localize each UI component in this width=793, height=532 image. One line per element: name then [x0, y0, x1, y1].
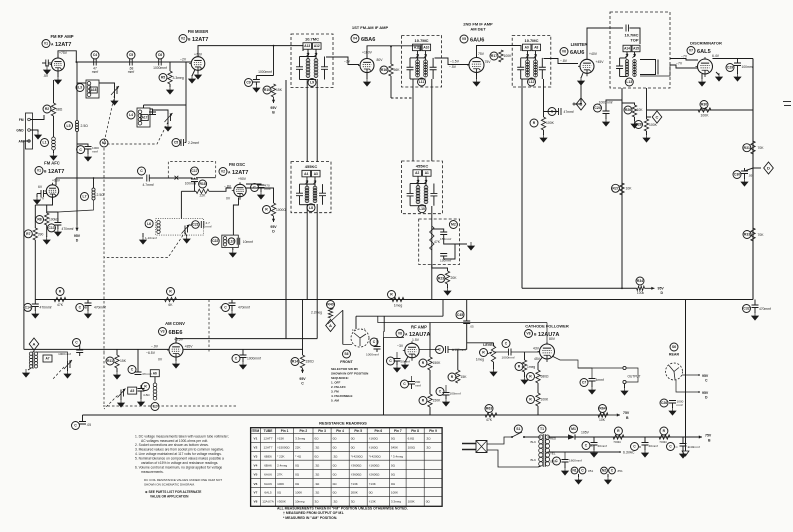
svg-text:27K: 27K — [277, 473, 282, 477]
svg-text:† MEASURED FROM OUTPUT OF: † MEASURED FROM OUTPUT OF M1. — [283, 511, 344, 515]
svg-text:47K: 47K — [434, 240, 441, 244]
V3 cathode ground — [175, 357, 177, 361]
bottom bus wire — [83, 414, 609, 416]
tuning capacitors of L11 — [407, 67, 414, 70]
svg-text:C32: C32 — [743, 307, 749, 311]
svg-text:10.7MC: 10.7MC — [305, 37, 319, 42]
svg-text:TOP: TOP — [630, 38, 638, 43]
capacitor .05 on right rail — [733, 171, 741, 179]
svg-text:2. Socket connections are sho: 2. Socket connections are shown as botto… — [135, 443, 209, 447]
svg-text:A8: A8 — [534, 46, 538, 50]
svg-text:545K: 545K — [391, 446, 398, 450]
diamond tag C — [647, 116, 652, 118]
svg-text:2.4meg: 2.4meg — [277, 463, 287, 467]
svg-text:.3Ω: .3Ω — [426, 446, 432, 450]
capacitor 470mmf right rail bottom — [743, 305, 751, 313]
svg-text:0Ω: 0Ω — [426, 500, 431, 504]
diamond tag A near RF amp — [326, 320, 336, 332]
capacitor 1000mmf am antenna — [73, 339, 81, 347]
svg-text:56K: 56K — [394, 68, 401, 72]
resistor 10K to ground — [624, 106, 632, 114]
svg-text:⊕40mmf: ⊕40mmf — [688, 445, 700, 449]
V4 cathode ground — [366, 73, 368, 80]
wire IF3 verticals down — [521, 79, 523, 288]
svg-text:A1: A1 — [425, 171, 429, 175]
svg-text:R: R — [422, 399, 425, 403]
svg-text:L11: L11 — [419, 80, 425, 84]
svg-text:R: R — [265, 208, 268, 212]
wire RF amp left loop — [383, 338, 385, 416]
svg-text:.5V: .5V — [43, 74, 49, 78]
svg-text:100K: 100K — [277, 482, 284, 486]
svg-text:−.9V: −.9V — [151, 345, 159, 349]
svg-text:C: C — [131, 368, 134, 372]
svg-text:D: D — [661, 291, 664, 295]
svg-text:3. Measured values are from s: 3. Measured values are from socket pin t… — [135, 448, 224, 452]
svg-text:C: C — [79, 148, 82, 152]
svg-text:* MEASURED IN "AM" POSITIO: * MEASURED IN "AM" POSITION. — [283, 516, 337, 520]
svg-text:V8: V8 — [254, 500, 258, 504]
wire 22K to osc grid — [209, 188, 232, 191]
filter capacitor C 40mmf — [667, 443, 675, 451]
triode V1 FM RF amp — [52, 58, 65, 71]
wire IF2 verticals down to 455KC box 2 — [412, 79, 414, 161]
svg-text:15K: 15K — [120, 359, 127, 363]
svg-text:.3Ω: .3Ω — [315, 473, 321, 477]
coil ref L11 — [418, 78, 426, 86]
svg-text:0Ω: 0Ω — [333, 437, 338, 441]
capacitor .05 bottom left — [72, 422, 80, 430]
svg-text:68Ω: 68Ω — [56, 108, 63, 112]
svg-text:+40V: +40V — [589, 52, 598, 56]
capacitor am osc tank — [138, 389, 145, 392]
svg-text:+90V: +90V — [238, 177, 247, 181]
svg-text:AC voltages measured at 1000-o: AC voltages measured at 1000-ohms per vo… — [141, 439, 208, 443]
svg-text:95V: 95V — [658, 287, 665, 291]
svg-text:AM DET: AM DET — [470, 27, 486, 32]
svg-text:M1: M1 — [571, 427, 576, 431]
svg-text:11: 11 — [352, 328, 355, 332]
svg-text:0Ω: 0Ω — [351, 446, 356, 450]
wire bus riser to RF amp loop — [442, 300, 444, 317]
resistor R2 68 ohm — [43, 105, 51, 113]
svg-text:150K: 150K — [433, 399, 442, 403]
svg-text:Pin 6: Pin 6 — [374, 429, 382, 433]
main horizontal bus wire — [35, 299, 753, 301]
capacitor 100mmf lower — [436, 388, 444, 396]
capacitor C6 1000mmf — [156, 51, 164, 59]
osc grid cluster box — [211, 237, 219, 245]
svg-text:ITEM: ITEM — [252, 429, 260, 433]
resistor 100K below diamond — [635, 121, 643, 129]
svg-text:A4: A4 — [304, 172, 308, 176]
svg-text:A11: A11 — [414, 46, 420, 50]
svg-text:BLK: BLK — [531, 440, 537, 444]
V6 cathode ground — [581, 73, 583, 78]
wire 455KC box1 verticals to bus — [306, 204, 308, 300]
svg-text:V1: V1 — [254, 437, 258, 441]
svg-text:6K: 6K — [168, 303, 173, 307]
svg-text:100mmf: 100mmf — [450, 392, 461, 396]
svg-text:LIMITER: LIMITER — [571, 42, 588, 47]
capacitor 100mmf AFC — [191, 167, 199, 175]
svg-text:R: R — [663, 429, 666, 433]
svg-text:2.2meg: 2.2meg — [311, 311, 322, 315]
cross mark on AFC line — [175, 176, 179, 180]
wire coupling to level pot — [467, 342, 494, 344]
pentode V5 6AU6 — [469, 58, 484, 73]
svg-text:*†4200Ω: *†4200Ω — [369, 455, 382, 459]
svg-text:2.5Ω: 2.5Ω — [81, 124, 89, 128]
trimmer boxes A2 A1 — [413, 170, 422, 177]
wire FM antenna to R2 — [30, 115, 44, 120]
svg-text:0Ω: 0Ω — [295, 463, 300, 467]
svg-text:0Ω: 0Ω — [351, 437, 356, 441]
svg-text:100Ω: 100Ω — [408, 446, 416, 450]
capacitor 20mmf at switch — [387, 357, 395, 365]
pentode V6 limiter — [580, 59, 594, 73]
svg-text:R28: R28 — [635, 123, 641, 127]
diamond tag B — [580, 84, 582, 104]
svg-text:DISCRIMINATOR: DISCRIMINATOR — [690, 41, 722, 46]
resistor R64 10K in bottom bus — [599, 405, 607, 413]
svg-text:0Ω: 0Ω — [369, 491, 374, 495]
svg-text:10K: 10K — [637, 108, 644, 112]
svg-text:470mmf: 470mmf — [759, 307, 771, 311]
svg-text:−1.5V: −1.5V — [450, 60, 460, 64]
IF transformer L8 box 455KC — [291, 162, 331, 213]
svg-text:700Ω: 700Ω — [613, 440, 621, 444]
resistor 6K in bus — [167, 288, 175, 296]
svg-text:680Ω: 680Ω — [541, 375, 550, 379]
osc tank box — [156, 219, 204, 236]
svg-text:V6: V6 — [254, 482, 258, 486]
svg-text:C: C — [581, 469, 584, 473]
svg-text:R: R — [518, 365, 521, 369]
svg-text:⊕100mmf: ⊕100mmf — [452, 348, 467, 352]
heater line 6.3VAC — [548, 451, 621, 453]
scan artifact marks right edge — [783, 102, 791, 106]
svg-text:0Ω: 0Ω — [391, 463, 396, 467]
svg-text:4.8Ω: 4.8Ω — [143, 393, 150, 397]
svg-text:V4: V4 — [353, 37, 357, 41]
capacitor 1000mmf at switch — [370, 338, 378, 346]
svg-text:FRONT: FRONT — [340, 360, 353, 364]
svg-text:†15000Ω: †15000Ω — [277, 446, 290, 450]
svg-text:A2: A2 — [415, 171, 419, 175]
svg-text:Pin 3: Pin 3 — [318, 429, 326, 433]
svg-text:75V: 75V — [623, 411, 630, 415]
wire V1 grid line to mixer — [77, 61, 191, 63]
coil ref L12 — [528, 78, 536, 86]
V1 cathode ground — [57, 71, 59, 77]
rectifier diode M1 — [570, 425, 578, 433]
coil ref L9 — [308, 79, 316, 87]
power transformer T1 — [538, 425, 546, 433]
svg-text:L13: L13 — [626, 80, 632, 84]
dual diode V7 6AL5 — [698, 59, 713, 74]
coils of L10 — [416, 186, 420, 190]
IF transformer L9 box 10.7MC — [291, 34, 333, 88]
svg-text:1. DC voltage measurements ta: 1. DC voltage measurements taken with va… — [135, 434, 229, 438]
IF4 trimmer boxes A14 A15 — [623, 45, 631, 52]
wire row3 grid bus — [24, 348, 169, 350]
svg-text:C: C — [705, 379, 708, 383]
svg-text:5. AM: 5. AM — [331, 399, 339, 403]
grid resistor 1meg — [515, 363, 523, 371]
filter resistor 700 ohm — [614, 427, 622, 435]
svg-text:12AT7: 12AT7 — [48, 169, 64, 175]
wire V4 plate to IF2 — [367, 46, 420, 59]
ground am antenna — [28, 368, 31, 370]
svg-text:R: R — [422, 361, 425, 365]
IF transformer L12 box 10.7MC — [512, 35, 551, 87]
svg-text:20K: 20K — [451, 276, 458, 280]
svg-text:S6: S6 — [672, 345, 676, 349]
wire IF3 secondary to limiter grid — [544, 59, 579, 64]
wire AFC line — [56, 177, 143, 179]
svg-text:N1: N1 — [572, 469, 576, 473]
svg-text:SHOWN ON SCHEMATIC DIAGRAM.: SHOWN ON SCHEMATIC DIAGRAM. — [144, 483, 195, 487]
wire V8B plate feed line — [378, 316, 547, 322]
svg-text:C7: C7 — [582, 381, 586, 385]
svg-text:0Ω: 0Ω — [295, 482, 300, 486]
osc gang dashed line — [104, 232, 186, 258]
svg-text:−7V: −7V — [681, 55, 688, 59]
resistor 2.2meg drop with diamond A — [327, 301, 335, 309]
svg-text:V5: V5 — [254, 473, 258, 477]
svg-text:A17: A17 — [142, 116, 148, 120]
wire L7 branch — [93, 178, 95, 188]
svg-text:10.7MC: 10.7MC — [524, 38, 538, 43]
svg-text:R10: R10 — [264, 88, 270, 92]
svg-text:A12: A12 — [314, 44, 320, 48]
svg-text:C: C — [633, 445, 636, 449]
capacitor C14 470mmf bus far left — [24, 303, 32, 311]
wire R7 column to bus — [34, 240, 36, 300]
svg-text:100K: 100K — [295, 491, 302, 495]
svg-text:.3Ω: .3Ω — [333, 500, 339, 504]
resistor R7 390 ohm — [24, 230, 32, 238]
svg-text:C: C — [75, 341, 78, 345]
svg-text:V1: V1 — [44, 42, 48, 46]
resistor 70K upper on right rail — [743, 144, 751, 152]
tuning capacitors of L12 — [517, 67, 524, 70]
svg-text:B: B — [626, 416, 629, 420]
triode V8A RF amp — [405, 343, 419, 357]
coil L7 2.5 ohm — [81, 193, 89, 201]
capacitor C4 47mmf — [91, 51, 99, 59]
svg-text:6V: 6V — [38, 185, 43, 189]
svg-text:R: R — [169, 290, 172, 294]
wire 95V D feed lower right — [522, 287, 637, 289]
svg-text:1meg: 1meg — [394, 304, 403, 308]
resistor 10K inline in B+ vertical — [612, 184, 620, 192]
ground osc grid cluster — [232, 248, 234, 251]
svg-text:95V: 95V — [270, 225, 277, 229]
diamond tag A far left — [29, 338, 39, 350]
75V B arrow bottom bus — [608, 414, 620, 416]
coils of L8 — [305, 186, 309, 190]
svg-text:†13K: †13K — [351, 482, 358, 486]
capacitor 4.7mmf AFC — [138, 167, 146, 175]
svg-text:47mmf: 47mmf — [564, 110, 574, 114]
svg-text:R11: R11 — [107, 359, 113, 363]
svg-text:C26: C26 — [661, 401, 667, 405]
output coupling capacitor 4mmf — [580, 379, 588, 387]
svg-text:2.5Ω: 2.5Ω — [97, 193, 105, 197]
V1 grid capacitor — [46, 60, 49, 67]
trimmer box A5 — [128, 387, 137, 394]
svg-text:3.3meg: 3.3meg — [391, 500, 401, 504]
svg-text:6.8Ω: 6.8Ω — [408, 437, 415, 441]
svg-text:0Ω: 0Ω — [333, 463, 338, 467]
cathode resistor 680 ohm — [527, 373, 535, 381]
svg-text:* 3.4meg: * 3.4meg — [391, 455, 404, 459]
svg-text:3.3meg: 3.3meg — [173, 76, 184, 80]
capacitor 470mmf osc plate — [251, 184, 259, 192]
svg-text:−3V: −3V — [397, 344, 404, 348]
coils of L12 — [526, 60, 530, 64]
svg-text:V4: V4 — [254, 463, 258, 467]
mixer injection capacitor 2.2mmf — [172, 139, 180, 147]
svg-text:R: R — [529, 375, 532, 379]
svg-text:−.5V: −.5V — [449, 65, 457, 69]
wire tank to grid line — [77, 82, 86, 84]
svg-text:2.2mmf: 2.2mmf — [188, 141, 199, 145]
tuning capacitors of L10 — [407, 193, 414, 196]
svg-text:6AU6: 6AU6 — [570, 50, 584, 56]
svg-text:95V: 95V — [702, 391, 709, 395]
IF4 coil ref L13 — [625, 78, 633, 86]
wire V5 plate to IF3 — [477, 46, 522, 58]
svg-text:455KC: 455KC — [305, 164, 318, 169]
wire down to osc tank — [181, 190, 196, 192]
svg-text:V3: V3 — [254, 455, 258, 459]
resistor 20K — [437, 274, 445, 282]
wire discriminator load line — [647, 109, 754, 111]
svg-text:.05: .05 — [748, 174, 753, 178]
svg-text:0Ω: 0Ω — [333, 482, 338, 486]
svg-text:V3: V3 — [160, 330, 164, 334]
svg-text:FM RF AMP: FM RF AMP — [50, 34, 73, 39]
right vertical rail — [752, 59, 754, 300]
svg-text:V2: V2 — [181, 37, 185, 41]
svg-text:B: B — [580, 101, 583, 106]
svg-text:C: C — [235, 357, 238, 361]
svg-text:10K: 10K — [626, 187, 633, 191]
svg-text:C: C — [389, 359, 392, 363]
svg-text:C14: C14 — [25, 306, 31, 310]
svg-text:470mmf: 470mmf — [238, 306, 250, 310]
gang line dashed long — [103, 148, 105, 352]
svg-text:†13K: †13K — [369, 482, 376, 486]
capacitor C5 68mmf — [127, 51, 135, 59]
resistor 15K am conv — [106, 357, 114, 365]
capacitor 150mmf lower — [440, 254, 447, 257]
svg-text:V2: V2 — [221, 170, 225, 174]
svg-text:A13: A13 — [304, 44, 310, 48]
capacitor 470mmf bus left2 — [76, 304, 84, 312]
capacitor 1000mmf coupling — [502, 340, 510, 348]
svg-text:75V: 75V — [485, 60, 492, 64]
svg-text:+75V: +75V — [59, 51, 68, 55]
svg-text:−6.5V: −6.5V — [146, 351, 156, 355]
trimmer box A7 am antenna — [43, 355, 52, 362]
svg-text:R16: R16 — [381, 68, 387, 72]
svg-text:0Ω: 0Ω — [333, 473, 338, 477]
resistor 70K lower on right rail — [743, 231, 751, 239]
trimmer box A6 — [150, 370, 159, 377]
svg-text:6AU6: 6AU6 — [470, 38, 484, 44]
svg-text:DC COIL RESISTANCE VALUES UNDE: DC COIL RESISTANCE VALUES UNDER ONE OHM … — [144, 478, 222, 482]
svg-text:100K: 100K — [504, 54, 513, 58]
svg-text:+45V: +45V — [596, 60, 605, 64]
svg-text:95V: 95V — [74, 234, 81, 238]
95V D arrow osc — [273, 216, 275, 222]
wire cathode column x53.5 — [53, 80, 55, 103]
svg-text:FM: FM — [19, 118, 24, 122]
trimmer boxes A11 A10 — [413, 44, 422, 51]
svg-text:BLK: BLK — [531, 458, 537, 462]
svg-text:15K: 15K — [276, 88, 283, 92]
wire 455KC1 stub to plate node — [316, 300, 318, 339]
svg-text:150K: 150K — [433, 361, 442, 365]
svg-text:Pin 4: Pin 4 — [336, 429, 344, 433]
variable capacitor RF tank — [115, 87, 118, 94]
resistor R10 15K — [263, 86, 271, 94]
svg-text:10mmf: 10mmf — [243, 240, 253, 244]
svg-text:A3: A3 — [314, 172, 318, 176]
svg-text:100K: 100K — [391, 491, 398, 495]
svg-text:75V: 75V — [478, 52, 485, 56]
svg-text:R33: R33 — [744, 233, 750, 237]
wire osc cathode to grid cluster — [233, 198, 238, 236]
svg-text:†3600Ω: †3600Ω — [351, 473, 362, 477]
svg-text:V8: V8 — [526, 332, 530, 336]
svg-text:1000mmf: 1000mmf — [58, 352, 71, 356]
coils of L11 — [416, 60, 420, 64]
RF tank coil L3 with trimmer A18 — [76, 84, 84, 92]
svg-text:A15: A15 — [633, 47, 639, 51]
wire below 455KC box2 — [431, 206, 433, 300]
svg-text:1: 1 — [364, 327, 366, 331]
svg-text:−2V: −2V — [180, 58, 187, 62]
V3 cathode resistor 100K — [47, 197, 53, 213]
svg-text:L3: L3 — [78, 86, 82, 90]
diamond tag D — [753, 167, 761, 169]
filter capacitor A 40mmf — [582, 442, 590, 450]
svg-text:3Ω: 3Ω — [315, 500, 320, 504]
osc grid capacitor 10mmf — [237, 238, 240, 245]
wire 95V C tap — [682, 374, 699, 376]
svg-text:1000mmf: 1000mmf — [366, 353, 379, 357]
svg-text:95V: 95V — [299, 377, 306, 381]
svg-text:mmf: mmf — [415, 384, 421, 388]
svg-text:6.3VAC: 6.3VAC — [623, 451, 635, 455]
svg-text:43V: 43V — [533, 347, 540, 351]
svg-text:C: C — [676, 445, 679, 449]
svg-text:.3Ω: .3Ω — [315, 463, 321, 467]
svg-text:C30: C30 — [734, 173, 740, 177]
wire IF1 verticals down to 455KC box — [306, 79, 308, 162]
svg-text:80V: 80V — [377, 58, 384, 62]
svg-text:R27: R27 — [612, 187, 618, 191]
svg-text:.3Ω: .3Ω — [426, 437, 432, 441]
svg-text:1000Ω: 1000Ω — [276, 208, 286, 212]
svg-text:M2: M2 — [451, 223, 456, 227]
svg-text:0V: 0V — [158, 358, 163, 362]
